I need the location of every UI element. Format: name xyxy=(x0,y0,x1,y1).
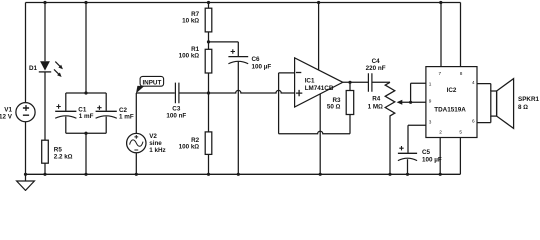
svg-text:100 µF: 100 µF xyxy=(422,156,442,163)
svg-text:C6: C6 xyxy=(252,56,261,63)
svg-text:100 nF: 100 nF xyxy=(166,112,186,119)
svg-text:12 V: 12 V xyxy=(0,114,13,121)
svg-text:10 kΩ: 10 kΩ xyxy=(182,18,199,25)
svg-text:100 kΩ: 100 kΩ xyxy=(179,52,200,59)
svg-text:8 Ω: 8 Ω xyxy=(518,104,528,111)
svg-text:1 MΩ: 1 MΩ xyxy=(368,103,383,110)
svg-text:SPKR1: SPKR1 xyxy=(518,96,539,103)
svg-text:C5: C5 xyxy=(422,149,431,156)
svg-text:V2: V2 xyxy=(149,133,157,140)
svg-text:2: 2 xyxy=(439,130,442,135)
svg-text:8: 8 xyxy=(460,71,463,76)
svg-text:220 nF: 220 nF xyxy=(366,65,386,72)
svg-text:LM741CB: LM741CB xyxy=(305,85,334,92)
svg-text:R4: R4 xyxy=(372,96,381,103)
svg-text:D1: D1 xyxy=(29,65,38,72)
svg-text:1 kHz: 1 kHz xyxy=(149,147,165,154)
svg-text:9: 9 xyxy=(429,98,432,103)
svg-text:50 Ω: 50 Ω xyxy=(327,104,341,111)
svg-text:100 kΩ: 100 kΩ xyxy=(179,144,200,151)
svg-text:6: 6 xyxy=(472,119,475,124)
svg-text:100 µF: 100 µF xyxy=(252,63,272,70)
svg-text:1: 1 xyxy=(429,81,432,86)
svg-text:2.2 kΩ: 2.2 kΩ xyxy=(54,153,73,160)
svg-text:1 mF: 1 mF xyxy=(119,114,134,121)
svg-text:INPUT: INPUT xyxy=(142,79,161,86)
svg-text:3: 3 xyxy=(429,119,432,124)
svg-text:5: 5 xyxy=(459,130,462,135)
svg-text:TDA1519A: TDA1519A xyxy=(434,107,466,114)
svg-text:IC1: IC1 xyxy=(305,77,315,84)
svg-text:IC2: IC2 xyxy=(447,87,457,94)
svg-text:V1: V1 xyxy=(4,107,12,114)
svg-text:1 mF: 1 mF xyxy=(79,113,94,120)
svg-text:4: 4 xyxy=(472,80,475,85)
svg-text:7: 7 xyxy=(438,71,441,76)
